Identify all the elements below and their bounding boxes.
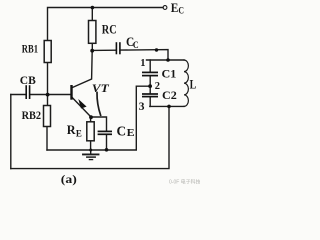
svg-text:C: C	[178, 6, 184, 16]
svg-text:C2: C2	[162, 90, 177, 102]
svg-text:VT: VT	[92, 81, 110, 95]
svg-text:C: C	[133, 40, 139, 50]
svg-text:RB1: RB1	[22, 42, 38, 56]
svg-text:1: 1	[140, 58, 145, 69]
svg-text:E: E	[76, 129, 82, 139]
svg-text:E: E	[127, 127, 135, 139]
svg-text:RC: RC	[102, 23, 117, 37]
svg-text:C1: C1	[162, 69, 177, 81]
svg-text:RB2: RB2	[22, 108, 41, 122]
svg-text:0-0F 电子科技: 0-0F 电子科技	[169, 179, 200, 186]
svg-text:3: 3	[139, 101, 145, 113]
svg-text:L: L	[190, 77, 197, 92]
svg-text:(a): (a)	[61, 172, 77, 186]
svg-text:R: R	[67, 122, 76, 137]
svg-text:E: E	[171, 1, 179, 15]
svg-text:2: 2	[155, 81, 160, 92]
svg-text:C: C	[117, 125, 127, 140]
svg-text:CB: CB	[20, 73, 36, 87]
